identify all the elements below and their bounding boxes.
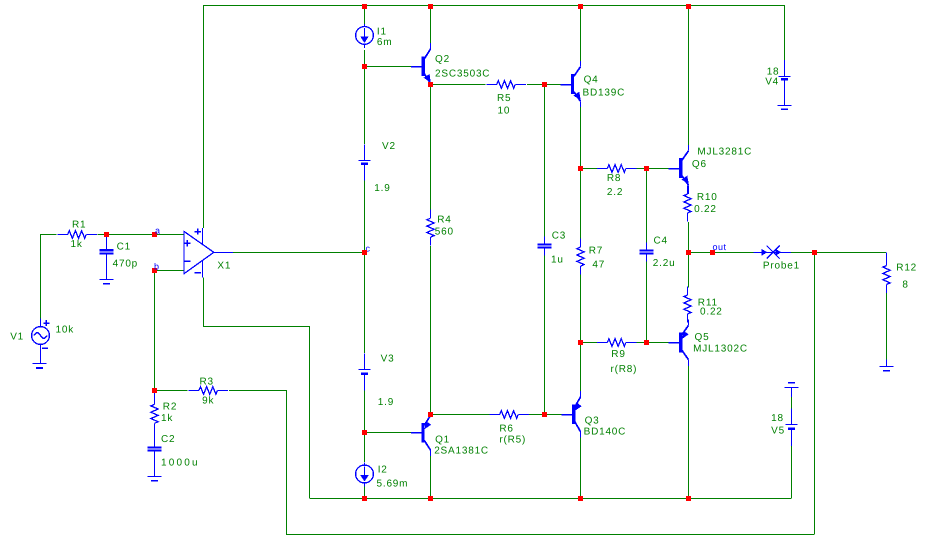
- svg-text:1.9: 1.9: [378, 397, 394, 408]
- svg-text:R7: R7: [589, 246, 603, 257]
- svg-text:C2: C2: [161, 434, 175, 445]
- svg-text:C1: C1: [117, 242, 131, 253]
- svg-text:Q4: Q4: [584, 75, 599, 86]
- svg-text:2SC3503C: 2SC3503C: [435, 68, 490, 79]
- svg-text:560: 560: [435, 227, 454, 238]
- svg-text:V2: V2: [382, 141, 396, 152]
- svg-text:2.2u: 2.2u: [653, 258, 676, 269]
- svg-text:Q1: Q1: [435, 435, 450, 446]
- svg-text:R2: R2: [163, 402, 177, 413]
- svg-text:1000u: 1000u: [161, 457, 200, 468]
- svg-text:V4: V4: [765, 76, 779, 87]
- svg-text:Q5: Q5: [695, 332, 710, 343]
- svg-text:MJL3281C: MJL3281C: [697, 147, 752, 158]
- svg-text:18: 18: [771, 413, 784, 424]
- svg-text:r(R8): r(R8): [611, 364, 638, 375]
- svg-text:2.2: 2.2: [607, 187, 623, 198]
- svg-text:R4: R4: [437, 215, 451, 226]
- svg-text:r(R5): r(R5): [499, 434, 526, 445]
- svg-text:9k: 9k: [202, 395, 214, 406]
- svg-text:R8: R8: [607, 173, 621, 184]
- svg-text:R3: R3: [200, 376, 214, 387]
- svg-text:R12: R12: [896, 263, 917, 274]
- svg-text:R5: R5: [497, 93, 511, 104]
- svg-text:0.22: 0.22: [694, 204, 717, 215]
- svg-text:out: out: [713, 242, 727, 252]
- svg-text:10k: 10k: [56, 324, 75, 335]
- svg-text:V1: V1: [10, 332, 24, 343]
- svg-text:Probe1: Probe1: [763, 261, 800, 272]
- svg-text:1.9: 1.9: [374, 183, 390, 194]
- svg-text:R9: R9: [611, 349, 625, 360]
- svg-text:470p: 470p: [113, 258, 138, 269]
- svg-text:a: a: [155, 226, 161, 236]
- svg-text:MJL1302C: MJL1302C: [693, 344, 748, 355]
- svg-text:1k: 1k: [161, 413, 173, 424]
- svg-text:2SA1381C: 2SA1381C: [434, 445, 489, 456]
- svg-text:V5: V5: [771, 426, 785, 437]
- svg-text:R6: R6: [499, 423, 513, 434]
- svg-text:I2: I2: [378, 465, 388, 476]
- svg-text:R1: R1: [72, 220, 86, 231]
- svg-text:Q6: Q6: [692, 159, 707, 170]
- svg-text:BD139C: BD139C: [583, 88, 626, 99]
- svg-text:C4: C4: [654, 235, 668, 246]
- svg-text:8: 8: [902, 280, 908, 291]
- svg-text:V3: V3: [381, 354, 395, 365]
- svg-text:Q3: Q3: [585, 415, 600, 426]
- svg-text:47: 47: [592, 260, 605, 271]
- svg-text:R10: R10: [697, 192, 718, 203]
- svg-text:Q2: Q2: [435, 54, 450, 65]
- svg-text:5.69m: 5.69m: [377, 479, 409, 490]
- svg-text:BD140C: BD140C: [584, 426, 627, 437]
- svg-text:10: 10: [498, 106, 511, 117]
- svg-text:0.22: 0.22: [700, 307, 723, 318]
- svg-text:b: b: [154, 262, 160, 272]
- svg-text:1k: 1k: [71, 239, 83, 250]
- svg-text:C3: C3: [552, 230, 566, 241]
- svg-text:1u: 1u: [551, 254, 564, 265]
- svg-text:X1: X1: [217, 261, 231, 272]
- svg-text:6m: 6m: [377, 37, 393, 48]
